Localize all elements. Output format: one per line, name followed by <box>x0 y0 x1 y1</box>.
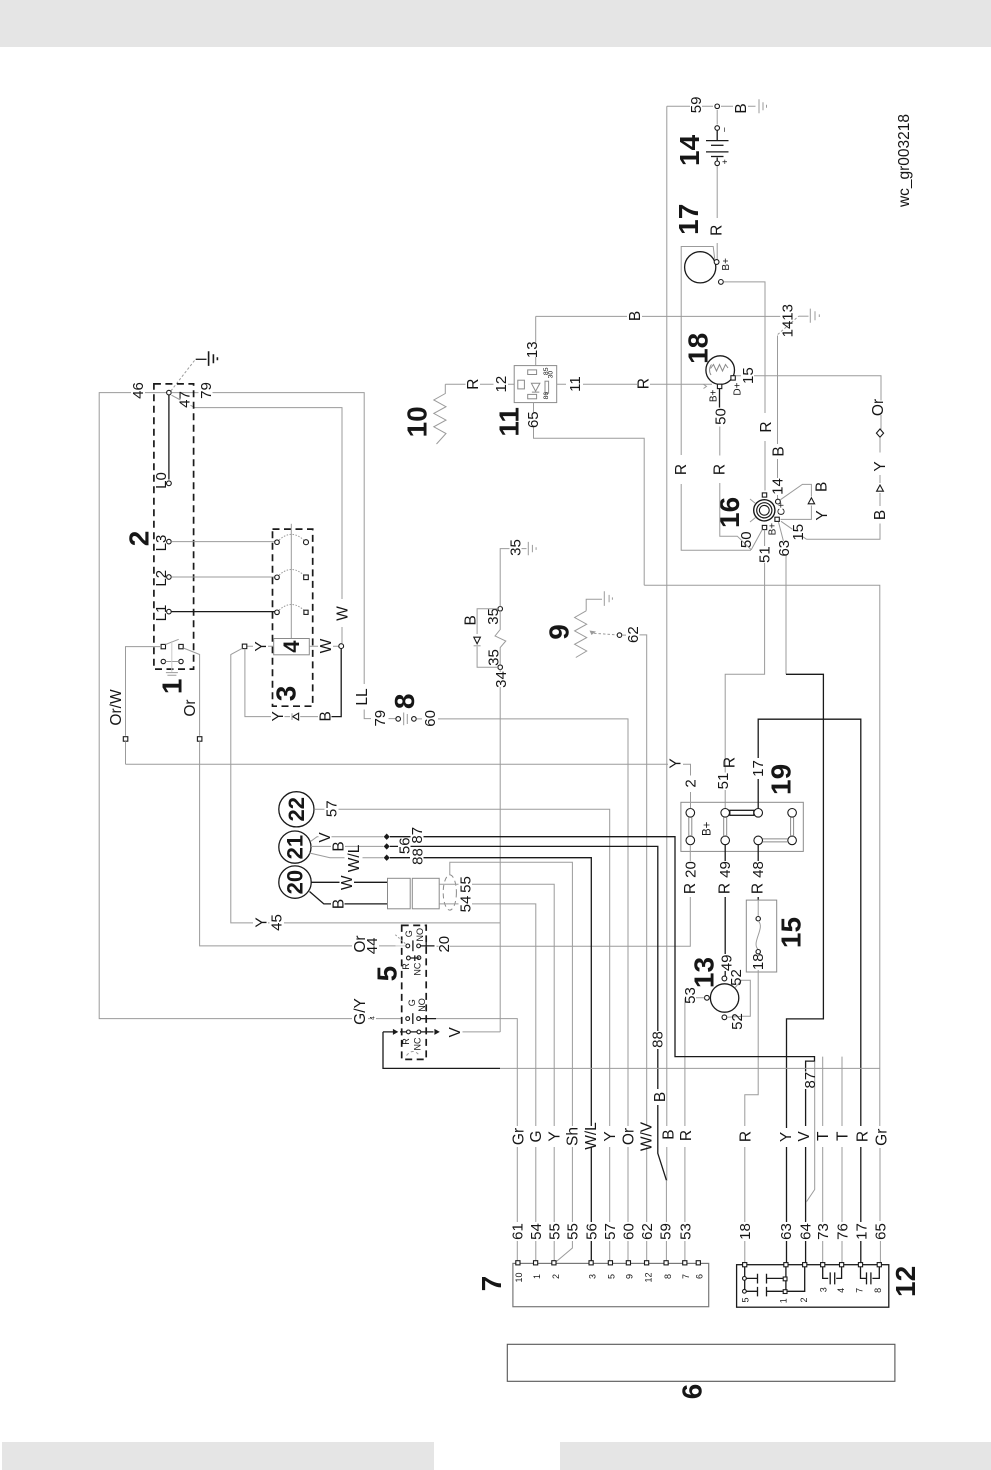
svg-text:6: 6 <box>676 1384 707 1400</box>
svg-text:C+: C+ <box>777 502 788 515</box>
svg-text:79: 79 <box>198 382 215 399</box>
comp5 contact1 common stub <box>396 945 405 947</box>
connector 12 box <box>737 1265 889 1308</box>
relay 19 internal link left <box>689 817 692 836</box>
comp5 coil arc <box>407 1052 420 1056</box>
fuse body rects <box>388 878 411 909</box>
svg-text:56: 56 <box>584 1223 601 1240</box>
svg-text:R: R <box>673 464 690 475</box>
svg-text:64: 64 <box>797 1223 814 1240</box>
diode in loop <box>808 498 814 504</box>
svg-text:14: 14 <box>770 478 787 495</box>
wire 73 from 1056 line to connector12 <box>822 1057 824 1265</box>
arrow connector in column <box>877 485 884 491</box>
svg-text:62: 62 <box>625 626 642 643</box>
svg-text:88: 88 <box>649 1031 666 1048</box>
svg-text:V: V <box>796 1131 813 1142</box>
wire 57 from circle22 to connector7 <box>314 809 610 1262</box>
svg-text:11: 11 <box>494 407 525 437</box>
wire relay11 pin11 east to 18 B+ with labels 11 R <box>557 383 712 385</box>
svg-text:9: 9 <box>625 1274 635 1279</box>
relay 19 internal link bottom horizontal <box>763 839 788 842</box>
ground G4 <box>528 542 536 555</box>
starter 16 stub marks left <box>750 499 756 522</box>
svg-text:R: R <box>749 883 766 894</box>
svg-text:T: T <box>815 1131 832 1141</box>
svg-text:16: 16 <box>714 497 745 528</box>
svg-text:49: 49 <box>717 861 734 878</box>
svg-text:15: 15 <box>776 917 807 948</box>
connector circle 20 <box>279 866 311 898</box>
svg-text:R: R <box>678 1130 695 1141</box>
wire OrW square down join y764 <box>125 741 127 764</box>
comp5 contact2 east gray to Gr corner <box>436 1019 517 1262</box>
svg-text:Y: Y <box>872 461 889 471</box>
svg-text:B: B <box>661 1129 678 1139</box>
svg-text:17: 17 <box>750 760 767 777</box>
svg-text:3: 3 <box>270 686 301 702</box>
svg-text:7: 7 <box>855 1288 865 1293</box>
svg-text:49: 49 <box>718 954 735 971</box>
stator center line <box>290 524 292 639</box>
svg-text:+: + <box>720 159 730 164</box>
svg-text:53: 53 <box>677 1223 694 1240</box>
wire B 14 down to starter C+ <box>777 336 779 500</box>
relay 11 diode <box>531 383 540 392</box>
svg-text:2: 2 <box>682 779 699 787</box>
wire Or square down to 44 run <box>200 741 352 946</box>
battery 14 <box>706 110 730 166</box>
relay block 5 dashed box <box>402 925 427 1059</box>
svg-text:R: R <box>722 757 739 768</box>
svg-text:5: 5 <box>606 1274 616 1279</box>
svg-text:V: V <box>447 1026 464 1037</box>
svg-text:5: 5 <box>371 966 402 982</box>
diode 35 <box>474 637 481 644</box>
capacitor 2 pins 5-1 <box>746 1287 783 1297</box>
svg-text:7: 7 <box>681 1274 691 1279</box>
svg-text:Y: Y <box>270 711 287 721</box>
svg-text:B: B <box>813 482 830 492</box>
connector circle 22 <box>279 792 314 827</box>
svg-text:19: 19 <box>766 764 797 795</box>
svg-text:18: 18 <box>737 1223 754 1240</box>
svg-text:B: B <box>317 711 334 721</box>
wire R loop from 17 B+ west-south to starter junction <box>681 247 751 551</box>
capacitor pins 7-8 <box>861 1267 880 1285</box>
motor 17 circle <box>685 252 716 283</box>
switch 1 center post and ground <box>171 641 173 672</box>
wire B from circle21 <box>311 845 384 847</box>
svg-text:B: B <box>330 899 347 909</box>
junction diamond B <box>384 843 390 849</box>
starter 16 tab upper right C+ <box>776 499 781 504</box>
ground battery negative <box>759 99 767 113</box>
header gray band <box>0 0 991 47</box>
wire L0 to node46 black <box>168 395 170 480</box>
svg-text:54: 54 <box>458 896 475 913</box>
svg-text:44: 44 <box>364 938 381 955</box>
svg-text:W: W <box>318 638 335 653</box>
svg-text:2: 2 <box>799 1297 809 1302</box>
svg-text:47: 47 <box>177 391 194 408</box>
svg-text:Or: Or <box>870 399 887 416</box>
svg-text:13: 13 <box>524 341 541 358</box>
wire comp1 left to Or/W square <box>126 647 162 736</box>
relay 11 contact bar <box>545 381 549 393</box>
wire 59 pin stub <box>665 1180 667 1262</box>
svg-text:B: B <box>733 103 750 113</box>
horn top node <box>722 976 727 981</box>
comp5 contact1 NC row <box>407 956 411 960</box>
wire Y45 diagonal and long south run <box>231 648 500 923</box>
long wire y764 to relay19 terminal 2 <box>126 764 691 808</box>
sensor 9 zigzag <box>575 611 587 658</box>
svg-text:W: W <box>339 875 356 890</box>
svg-text:W/V: W/V <box>638 1121 655 1151</box>
wire WL from circle21 <box>310 853 384 858</box>
wire 47 diagonal and east to W drop <box>172 395 343 643</box>
svg-text:34: 34 <box>493 671 510 688</box>
wire V from circle21 <box>311 837 384 842</box>
wire 48 black from relay19 to box15 <box>757 845 759 900</box>
svg-text:35: 35 <box>485 649 502 666</box>
svg-text:Or/W: Or/W <box>108 689 125 726</box>
square connector Or <box>197 737 202 742</box>
svg-text:63: 63 <box>776 540 793 557</box>
svg-text:88: 88 <box>409 848 426 865</box>
wire 60 from connector 8 to east corner then connector 7 <box>417 719 629 1262</box>
node L2 + wire <box>167 575 172 580</box>
switch 1 blade diagonals <box>166 639 179 644</box>
svg-text:B: B <box>331 841 348 851</box>
oil block node bottom <box>498 665 503 670</box>
comp5 NC circles contact2 <box>407 1030 411 1034</box>
wire box4 to W node <box>309 645 339 647</box>
svg-text:NO: NO <box>417 998 427 1012</box>
connector 8 bars <box>404 713 408 726</box>
svg-text:7: 7 <box>476 1276 507 1292</box>
svg-text:5: 5 <box>740 1297 750 1302</box>
relay 11 box <box>514 366 557 403</box>
svg-text:50: 50 <box>712 408 729 425</box>
wire 44 into comp5 <box>379 945 396 947</box>
node 18 B+ square <box>717 384 721 388</box>
wire 46 west + left long vertical to G/Y <box>99 393 402 1019</box>
svg-text:Or: Or <box>182 699 199 716</box>
fuse lead 55 east <box>439 884 554 1262</box>
svg-text:Gr: Gr <box>510 1128 527 1145</box>
svg-text:B+: B+ <box>708 389 719 402</box>
svg-text:48: 48 <box>750 861 767 878</box>
svg-text:Or: Or <box>620 1128 637 1145</box>
svg-text:Y: Y <box>602 1131 619 1141</box>
wire y585 long horizontal to x880 <box>644 585 880 1262</box>
svg-text:R: R <box>712 464 729 475</box>
node 17 second terminal <box>719 280 724 285</box>
svg-text:B+: B+ <box>701 821 713 836</box>
horn bottom node <box>722 1015 727 1020</box>
svg-text:15: 15 <box>740 367 757 384</box>
svg-text:Y: Y <box>546 1131 563 1141</box>
wire 56/88 black east then south to pin 59 <box>390 846 666 1180</box>
svg-text:1: 1 <box>779 1298 789 1303</box>
wire 76 from 1056 line to connector12 <box>841 1057 843 1265</box>
resistor 10 <box>434 384 446 444</box>
alternator 18 internal zigzag <box>711 365 729 372</box>
node 18 D+ square <box>731 376 735 380</box>
svg-text:57: 57 <box>602 1223 619 1240</box>
svg-text:86: 86 <box>543 392 550 400</box>
svg-text:R: R <box>401 963 411 970</box>
wire 87 black east and south via x675 <box>390 837 815 1266</box>
horn left node 53 <box>705 995 710 1000</box>
comp5 contact1 NO line + tick <box>421 942 435 949</box>
svg-text:R: R <box>758 421 775 432</box>
relay 19 bus bar <box>730 810 754 815</box>
svg-text:35: 35 <box>508 539 525 556</box>
pin2 internal drop to cap2 <box>787 1267 805 1291</box>
svg-text:22: 22 <box>284 797 309 821</box>
wire Y arrow B column <box>807 438 880 540</box>
svg-text:1: 1 <box>532 1274 542 1279</box>
wire B horizontal y316 <box>536 315 781 317</box>
connector 7 pin numbers <box>514 1272 705 1282</box>
svg-text:W/L: W/L <box>346 844 363 872</box>
svg-text:30: 30 <box>547 371 554 379</box>
svg-text:6: 6 <box>695 1274 705 1279</box>
svg-text:B: B <box>462 615 479 625</box>
svg-text:1413: 1413 <box>780 304 797 337</box>
stator box 3 dashed <box>273 529 313 706</box>
svg-text:Y: Y <box>253 641 270 651</box>
relay 19 terminals top row <box>686 809 695 818</box>
svg-text:55: 55 <box>565 1223 582 1240</box>
svg-text:NO: NO <box>415 928 425 942</box>
svg-text:20: 20 <box>436 936 453 953</box>
svg-text:W/L: W/L <box>583 1122 600 1150</box>
svg-text:B+: B+ <box>767 523 778 536</box>
svg-text:LL: LL <box>354 688 371 706</box>
diode bypass loop <box>477 609 498 667</box>
wire C+ diode loop <box>780 484 811 519</box>
svg-text:57: 57 <box>324 800 341 817</box>
svg-text:76: 76 <box>834 1223 851 1240</box>
svg-text:R: R <box>854 1131 871 1142</box>
relay 19 box <box>681 802 803 851</box>
svg-text:46: 46 <box>130 382 147 399</box>
node L1 + wire black <box>167 609 172 614</box>
svg-text:Gr: Gr <box>873 1129 890 1146</box>
svg-text:B: B <box>770 446 787 456</box>
wire 87 gray twin down <box>806 1062 814 1203</box>
wire 34 down to y764 <box>499 670 501 1033</box>
svg-text:8: 8 <box>663 1274 673 1279</box>
breaker element wavy <box>757 900 759 916</box>
svg-text:4: 4 <box>836 1288 846 1293</box>
svg-text:8: 8 <box>389 694 420 710</box>
svg-text:45: 45 <box>269 914 286 931</box>
svg-text:G/Y: G/Y <box>352 998 369 1025</box>
wire loop west side up to Y square <box>245 649 271 717</box>
svg-text:4: 4 <box>370 1016 377 1020</box>
fuse holder dashed oval <box>443 875 456 910</box>
square node Y45 <box>242 644 247 649</box>
ground 1413 <box>778 309 820 335</box>
svg-text:R: R <box>682 883 699 894</box>
svg-text:R: R <box>709 225 726 236</box>
wire 62 east and south to connector7 <box>622 635 647 1262</box>
svg-text:2: 2 <box>551 1274 561 1279</box>
svg-text:Y: Y <box>814 510 831 520</box>
bracket 52 <box>727 980 750 1017</box>
svg-text:35: 35 <box>485 608 502 625</box>
relay 19 internal link mid <box>724 817 727 836</box>
relay 11 coil <box>518 380 525 389</box>
svg-text:B: B <box>627 311 644 321</box>
wire 15 diagonal to starter tab <box>781 521 807 539</box>
relay 19 internal link right vertical <box>791 817 794 836</box>
svg-text:B: B <box>872 510 889 520</box>
svg-text:Sh: Sh <box>564 1127 581 1146</box>
winding arc L2 <box>277 569 306 577</box>
alternator 18 internal arrow arc <box>710 365 712 376</box>
svg-text:20: 20 <box>283 870 308 894</box>
square connector Or/W <box>123 737 128 742</box>
svg-text:12: 12 <box>890 1266 921 1297</box>
svg-text:50: 50 <box>738 531 755 548</box>
comp5 contact1 blade dotted <box>395 935 406 945</box>
svg-text:55: 55 <box>546 1223 563 1240</box>
svg-text:20: 20 <box>682 861 699 878</box>
wire relay11 pin13 up to B line <box>535 316 537 365</box>
connector 8 node right <box>412 717 417 722</box>
svg-text:65: 65 <box>525 411 542 428</box>
node 46/79 <box>167 390 172 395</box>
svg-text:L3: L3 <box>153 535 170 552</box>
winding arc L1 <box>277 604 306 612</box>
svg-text:12: 12 <box>644 1272 654 1282</box>
generator box 2 dashed <box>154 384 194 669</box>
svg-text:51: 51 <box>757 546 774 563</box>
junction diamond V <box>384 834 390 840</box>
comp5 contact1 common circle <box>406 944 410 948</box>
wire 50 leader from starter bottom tab <box>751 530 762 550</box>
winding arc L3 <box>277 534 306 542</box>
svg-text:59: 59 <box>688 97 705 114</box>
wire V east to x4996 vertical <box>463 1031 501 1033</box>
svg-text:65: 65 <box>873 1223 890 1240</box>
connector 12 pin squares <box>743 1263 882 1267</box>
relay 19 terminals bottom row <box>686 836 695 845</box>
connector circle 21 <box>279 831 311 863</box>
wire 53 leader and down to connector7 <box>685 998 705 1262</box>
svg-text:14: 14 <box>674 134 705 166</box>
wire 20 from relay19 down west to component5 <box>437 845 691 946</box>
svg-text:L1: L1 <box>153 605 170 622</box>
switch 1 terminals squares <box>161 644 165 648</box>
wire battery plus to motor 17 B+ with label R <box>716 166 718 260</box>
wire 59 long vertical <box>666 106 668 1181</box>
pin1 internal drop <box>785 1267 787 1290</box>
horn 13 circle <box>710 984 738 1012</box>
relay 11 contact rects <box>528 370 537 375</box>
switch 1 terminals circles <box>161 659 165 663</box>
svg-text:R: R <box>737 1131 754 1142</box>
switch 1 link <box>166 661 179 663</box>
box 15 breaker <box>746 900 776 972</box>
node 62 <box>617 633 622 638</box>
node battery minus top <box>715 104 720 109</box>
connector12 pin5 internal drops and nodes <box>744 1267 746 1289</box>
capacitor 1 pins 5-1 <box>746 1274 783 1284</box>
wire 17 black from relay19 terminal to connector12 <box>758 719 861 1265</box>
wire 88 black east then south to pin 56 <box>390 858 591 1262</box>
wire 63 from starter tab diagonal <box>779 522 787 558</box>
svg-text:Y: Y <box>668 758 685 768</box>
comp5 contact2 blade bar <box>412 1013 414 1024</box>
svg-text:15: 15 <box>790 524 807 541</box>
comp5 blade bracket black south then east long <box>383 1032 500 1069</box>
svg-text:60: 60 <box>422 710 439 727</box>
svg-text:2: 2 <box>123 531 154 547</box>
svg-text:Y: Y <box>778 1132 795 1142</box>
node 17 B+ <box>714 260 719 265</box>
svg-text:R: R <box>636 378 653 389</box>
wire bottom loop to diode <box>285 716 319 718</box>
starter 16 tab top <box>762 493 766 497</box>
svg-text:W: W <box>334 606 351 621</box>
alternator 18 circle <box>706 356 735 385</box>
svg-text:13: 13 <box>689 957 720 988</box>
tick on wire at 18 B+ <box>704 384 707 388</box>
svg-text:18: 18 <box>683 333 714 364</box>
starter 16 tab lower right <box>775 517 779 521</box>
fuse lead 54 east <box>439 904 536 1262</box>
wiper arrow 62 <box>594 633 617 635</box>
svg-text:63: 63 <box>778 1223 795 1240</box>
wire 51 from starter bottom <box>725 530 764 809</box>
svg-text:11: 11 <box>567 376 584 392</box>
comp5 contact2 V blade line with arrows <box>383 1031 434 1033</box>
svg-text:1: 1 <box>157 679 188 695</box>
svg-text:79: 79 <box>372 710 389 727</box>
svg-text:87: 87 <box>802 1072 819 1089</box>
wire 79 east and down to LL <box>171 393 395 719</box>
svg-text:NC: NC <box>412 1037 422 1050</box>
wire 59 horizontal from battery node <box>667 105 713 107</box>
starter 16 tab bottom <box>762 525 766 529</box>
black drop from W node and bottom run <box>332 649 342 717</box>
svg-text:V: V <box>317 832 334 843</box>
wire 50 from 18 B+ down to junction <box>719 389 721 408</box>
wire D+ 15 east to Or corner <box>736 376 882 430</box>
svg-text:9: 9 <box>544 624 575 640</box>
starter 16 circles <box>754 500 775 521</box>
svg-text:L2: L2 <box>153 570 170 587</box>
svg-text:10: 10 <box>402 406 433 437</box>
diode Y B <box>293 713 299 720</box>
svg-text:12: 12 <box>493 376 510 393</box>
wire B from circle20 to fuse <box>310 892 388 904</box>
svg-text:3: 3 <box>819 1287 829 1292</box>
svg-text:17: 17 <box>673 204 704 235</box>
regulator box 4 <box>274 639 310 655</box>
box 6 <box>507 1344 895 1381</box>
ground top left G1 <box>171 351 218 391</box>
connector 7 box <box>513 1263 709 1306</box>
svg-text:R: R <box>465 378 482 389</box>
